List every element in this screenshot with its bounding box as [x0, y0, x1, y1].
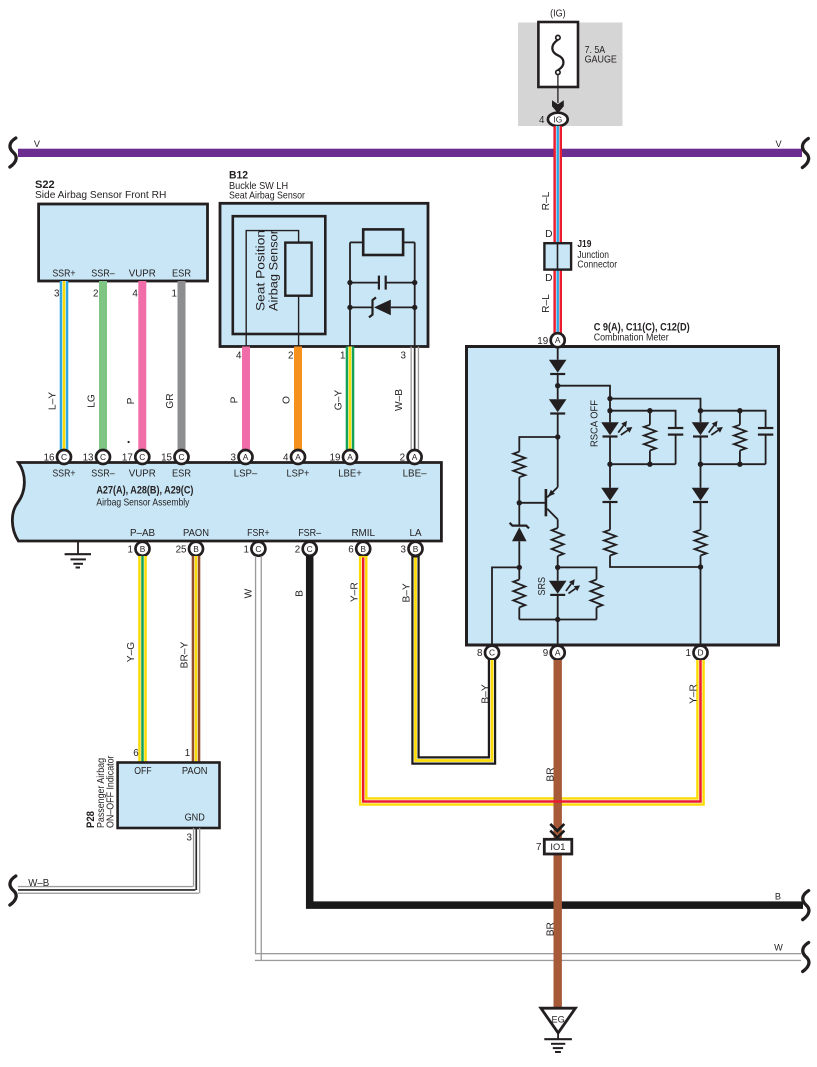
- svg-text:Y–R: Y–R: [349, 582, 360, 602]
- svg-text:B: B: [193, 544, 199, 554]
- svg-text:Combination Meter: Combination Meter: [594, 332, 670, 343]
- svg-text:B: B: [413, 544, 419, 554]
- svg-text:LSP+: LSP+: [287, 468, 310, 479]
- svg-text:Y–R: Y–R: [689, 684, 700, 704]
- wire LG (S22 pin2 to 13C): [99, 281, 107, 450]
- svg-text:ESR: ESR: [172, 268, 191, 279]
- node: [555, 617, 560, 622]
- terminal 1(B) P-AB: [128, 542, 150, 556]
- wire B (2C FSR- to right edge): [310, 556, 803, 905]
- svg-text:J19: J19: [577, 239, 591, 250]
- component combination meter box: [467, 347, 779, 646]
- terminal 3(B) LA: [401, 542, 423, 556]
- wire W-B (B12 pin3 to 2A): [411, 347, 420, 451]
- wire to terminal 9A: [557, 595, 559, 645]
- terminal 17(C) VUPR: [122, 450, 149, 464]
- resistor R4: [591, 580, 603, 608]
- svg-text:C: C: [100, 452, 106, 462]
- svg-text:SSR+: SSR+: [53, 468, 76, 479]
- svg-text:D: D: [545, 273, 552, 284]
- svg-text:3: 3: [187, 832, 193, 843]
- resistor group2: [739, 411, 741, 425]
- capacitor in B12: [350, 276, 415, 290]
- svg-text:BR: BR: [545, 767, 556, 781]
- svg-text:C: C: [307, 544, 313, 554]
- label B12 Buckle SW LH Seat Airbag Sensor: [229, 170, 306, 202]
- node dots on B12 rails: [347, 280, 417, 310]
- component P28 Passenger Airbag ON-OFF Indicator: [118, 763, 220, 829]
- svg-text:D: D: [697, 648, 703, 658]
- wire: [700, 502, 702, 530]
- svg-text:L–Y: L–Y: [48, 392, 59, 410]
- squiggle B right: [803, 891, 809, 920]
- node: [517, 565, 522, 570]
- wire group2 to terminal 1D: [700, 556, 702, 646]
- wire feed to RSCA section: [558, 386, 610, 399]
- wire group1 bottom to group2: [610, 556, 701, 568]
- svg-text:LSP–: LSP–: [234, 468, 258, 479]
- capacitor group2: [758, 428, 773, 464]
- group1 top rail: [610, 411, 676, 428]
- svg-text:19: 19: [330, 453, 341, 464]
- svg-text:C: C: [139, 452, 145, 462]
- group2 top rail: [701, 411, 766, 428]
- zener diode in B12: [350, 297, 415, 317]
- svg-text:GR: GR: [165, 393, 176, 408]
- seat position airbag sensor housing: [233, 216, 325, 334]
- svg-text:A: A: [243, 452, 249, 462]
- svg-text:B12: B12: [229, 170, 248, 182]
- node: [607, 396, 612, 401]
- svg-text:Y–G: Y–G: [126, 642, 137, 662]
- svg-text:ESR: ESR: [172, 468, 191, 479]
- svg-text:3: 3: [401, 351, 407, 362]
- terminal 15(C) ESR: [161, 450, 188, 464]
- svg-text:LG: LG: [87, 394, 98, 408]
- ground from assembly band: [65, 541, 91, 568]
- svg-text:C: C: [255, 544, 261, 554]
- svg-text:3: 3: [54, 288, 60, 299]
- svg-text:7: 7: [536, 842, 541, 853]
- capacitor group1: [668, 428, 683, 464]
- zener diode Z1: [510, 523, 529, 542]
- svg-text:3: 3: [231, 453, 237, 464]
- svg-text:LA: LA: [410, 528, 422, 539]
- terminal 16(C) SSR+: [44, 450, 71, 464]
- SRS bottom rail: [519, 619, 596, 621]
- label C9A C11C C12D Combination Meter: [594, 322, 690, 344]
- wire L-Y (S22 pin3 to 16C): [60, 281, 69, 450]
- svg-text:EG: EG: [551, 1014, 564, 1024]
- terminal labels top of band: [53, 468, 427, 479]
- wire feed to group2: [610, 399, 701, 423]
- squiggle W right: [803, 943, 809, 972]
- stray dot: [128, 441, 130, 443]
- terminal 2(C) FSR-: [295, 542, 317, 556]
- svg-text:6: 6: [133, 748, 139, 759]
- fuse block gray background: [518, 23, 623, 127]
- svg-text:SSR–: SSR–: [91, 468, 115, 479]
- terminal 1(D) combination meter: [686, 646, 708, 660]
- svg-text:LBE–: LBE–: [403, 468, 427, 479]
- component S22 Side Airbag Sensor Front RH: [39, 204, 208, 281]
- wire: [609, 399, 611, 423]
- svg-text:C: C: [489, 648, 495, 658]
- svg-text:4: 4: [236, 351, 242, 362]
- diode D1: [549, 360, 567, 374]
- svg-text:4: 4: [539, 115, 545, 126]
- wire: [518, 607, 520, 619]
- svg-text:Airbag Sensor Assembly: Airbag Sensor Assembly: [96, 497, 190, 508]
- svg-text:4: 4: [283, 453, 289, 464]
- svg-text:GAUGE: GAUGE: [585, 55, 617, 66]
- svg-text:RMIL: RMIL: [351, 528, 375, 539]
- svg-text:BR–Y: BR–Y: [180, 641, 191, 668]
- svg-text:15: 15: [161, 453, 172, 464]
- svg-text:2: 2: [400, 453, 405, 464]
- buckle switch left rail: [349, 242, 351, 346]
- power bus V (purple): [18, 149, 802, 157]
- svg-text:1: 1: [128, 544, 133, 555]
- wire: [557, 556, 559, 581]
- resistor lower group1: [604, 530, 616, 556]
- label A27 A28 A29 Airbag Sensor Assembly: [96, 485, 193, 509]
- resistor R3: [513, 580, 525, 608]
- svg-text:Airbag Sensor: Airbag Sensor: [267, 230, 281, 311]
- diode group2: [692, 488, 710, 502]
- svg-text:G–Y: G–Y: [334, 390, 345, 411]
- svg-text:SRS: SRS: [537, 577, 548, 596]
- bus continuation squiggle right: [802, 139, 808, 168]
- node: [555, 434, 560, 439]
- svg-text:LBE+: LBE+: [338, 468, 362, 479]
- svg-text:SSR–: SSR–: [91, 268, 115, 279]
- wire GR (S22 pin1 to 15C): [178, 281, 186, 450]
- wire: [609, 502, 611, 530]
- red stripe of Y-R over BR: [363, 558, 700, 802]
- node base junction: [517, 500, 522, 505]
- transistor Q1: [545, 487, 558, 519]
- svg-text:17: 17: [122, 453, 133, 464]
- svg-text:PAON: PAON: [183, 528, 209, 539]
- wire: [557, 414, 559, 488]
- label P28 vertical: [85, 755, 116, 828]
- svg-text:3: 3: [401, 544, 407, 555]
- terminal 13(C) SSR-: [83, 450, 110, 464]
- wire BR-Y (25B to P28 PAON): [192, 556, 201, 762]
- svg-text:8: 8: [477, 648, 483, 659]
- wire P (B12 pin4 to 3A): [242, 347, 250, 451]
- wire SRS right rail: [558, 567, 597, 579]
- svg-text:A27(A), A28(B), A29(C): A27(A), A28(B), A29(C): [96, 485, 193, 497]
- terminal labels bottom of band: [130, 528, 422, 539]
- svg-text:16: 16: [44, 453, 55, 464]
- svg-text:B: B: [140, 544, 146, 554]
- label J19 Junction Connector: [577, 239, 617, 271]
- svg-text:B: B: [360, 544, 366, 554]
- svg-text:1: 1: [243, 544, 248, 555]
- svg-text:VUPR: VUPR: [129, 268, 156, 279]
- wire W-B (P28 GND to left edge): [18, 828, 200, 894]
- svg-text:2: 2: [295, 544, 300, 555]
- group2 bottom rail: [701, 463, 766, 465]
- svg-text:GND: GND: [185, 813, 205, 824]
- group1 bottom rail: [610, 463, 676, 465]
- svg-text:19: 19: [537, 336, 548, 347]
- buckle switch element box: [350, 229, 415, 255]
- svg-text:Seat Airbag Sensor: Seat Airbag Sensor: [229, 190, 306, 201]
- buckle switch right rail: [414, 242, 416, 346]
- svg-text:4: 4: [132, 288, 138, 299]
- wire Y-R yellow base (6B RMIL to 1D): [363, 556, 700, 802]
- svg-text:IG: IG: [553, 114, 562, 124]
- ground EG: [541, 1008, 576, 1052]
- svg-text:2: 2: [93, 288, 98, 299]
- wire BR (9A to EG ground): [554, 660, 562, 1008]
- wire: [596, 607, 598, 619]
- wire: [557, 374, 559, 399]
- terminal 6(B) RMIL: [348, 542, 370, 556]
- LED RSCA group1: [601, 422, 619, 436]
- svg-text:6: 6: [348, 544, 354, 555]
- terminal 25(B) PAON: [176, 542, 203, 556]
- svg-text:2: 2: [288, 351, 293, 362]
- svg-text:ON–OFF Indicator: ON–OFF Indicator: [105, 755, 116, 828]
- wire main feed inside meter: [557, 348, 559, 360]
- label S22 Side Airbag Sensor Front RH: [35, 179, 166, 201]
- resistor R2: [552, 528, 564, 556]
- svg-text:OFF: OFF: [134, 766, 151, 777]
- wire inside B12 from pin4: [246, 231, 298, 346]
- svg-text:D: D: [545, 229, 552, 240]
- svg-text:P: P: [230, 396, 241, 403]
- svg-text:W: W: [774, 943, 783, 953]
- svg-text:9: 9: [543, 648, 548, 659]
- diode D2: [549, 399, 567, 413]
- terminal 1(C) FSR+: [243, 542, 265, 556]
- svg-text:13: 13: [83, 453, 94, 464]
- svg-text:FSR–: FSR–: [298, 528, 321, 539]
- svg-text:1: 1: [172, 288, 177, 299]
- component B12 box: [220, 203, 428, 346]
- resistor group1: [649, 411, 651, 425]
- node: [555, 565, 560, 570]
- wire to terminal 8C: [492, 567, 519, 645]
- svg-text:B–Y: B–Y: [480, 684, 491, 703]
- LED SRS indicator: [549, 581, 567, 595]
- wire branch to R1: [519, 437, 557, 452]
- wire O (B12 pin2 to 4A): [294, 347, 302, 451]
- svg-text:A: A: [555, 648, 561, 658]
- svg-text:W–B: W–B: [28, 878, 49, 889]
- fuse 7.5A GAUGE: [538, 9, 617, 87]
- diode group1: [601, 488, 619, 502]
- svg-text:R–L: R–L: [541, 191, 552, 210]
- resistor lower group2: [695, 530, 707, 556]
- junction connector J19: [544, 243, 571, 269]
- wire from sensor element to pin2: [298, 296, 300, 346]
- svg-text:1: 1: [340, 351, 345, 362]
- connector terminal 4 IG: [539, 113, 568, 126]
- resistor R1: [513, 452, 525, 478]
- label Seat Position Airbag Sensor: [254, 230, 281, 311]
- svg-text:C: C: [61, 452, 67, 462]
- terminal 9(A) combination meter: [543, 646, 565, 660]
- svg-text:VUPR: VUPR: [129, 468, 156, 479]
- wire R-L (IG to combination meter pin 19): [553, 126, 562, 334]
- wire base of transistor: [519, 502, 545, 504]
- connector IO1: [536, 839, 572, 854]
- node: [555, 383, 560, 388]
- svg-text:B: B: [775, 892, 781, 902]
- terminal 19(A) combination meter: [537, 333, 564, 347]
- svg-text:A: A: [412, 452, 418, 462]
- svg-text:RSCA OFF: RSCA OFF: [590, 400, 601, 447]
- svg-text:1: 1: [686, 648, 691, 659]
- connector chevrons above IO1: [550, 824, 564, 838]
- svg-text:FSR+: FSR+: [247, 528, 270, 539]
- svg-text:P: P: [126, 397, 137, 404]
- terminal 4(A) LSP+: [283, 450, 305, 464]
- svg-text:PAON: PAON: [182, 766, 208, 777]
- terminal 3(A) LSP-: [231, 450, 253, 464]
- svg-text:B–Y: B–Y: [401, 583, 412, 602]
- wire: [609, 437, 611, 488]
- svg-text:A: A: [347, 452, 353, 462]
- wire G-Y (B12 pin1 to 19A): [346, 347, 355, 451]
- svg-text:V: V: [776, 139, 783, 149]
- terminal 2(A) LBE-: [400, 450, 422, 464]
- node: [607, 408, 612, 413]
- wire B-Y (3B LA to 8C): [416, 556, 493, 761]
- squiggle W-B left: [10, 876, 16, 905]
- bus continuation squiggle left: [10, 138, 16, 167]
- node: [698, 408, 703, 413]
- LED RSCA group2: [692, 422, 710, 436]
- arrow from fuse to connector IG: [552, 75, 564, 113]
- svg-text:R–L: R–L: [541, 294, 552, 313]
- svg-text:Side Airbag Sensor Front RH: Side Airbag Sensor Front RH: [35, 190, 166, 201]
- svg-text:SSR+: SSR+: [53, 268, 76, 279]
- wire P (S22 pin4 to 17C): [138, 281, 146, 450]
- svg-text:A: A: [295, 452, 301, 462]
- svg-text:P–AB: P–AB: [130, 528, 155, 539]
- svg-text:A: A: [555, 335, 561, 345]
- svg-text:IO1: IO1: [550, 842, 565, 852]
- terminal 19(A) LBE+: [330, 450, 357, 464]
- svg-text:V: V: [34, 139, 41, 149]
- terminal 8(C) combination meter: [477, 646, 499, 660]
- wire: [700, 437, 702, 488]
- wire Y-G (1B to P28 OFF): [138, 556, 147, 762]
- svg-text:(IG): (IG): [550, 9, 566, 20]
- svg-text:Seat Position: Seat Position: [254, 230, 268, 311]
- sensor element: [285, 243, 311, 296]
- wire: [518, 477, 520, 525]
- svg-text:W: W: [244, 588, 255, 598]
- svg-text:B: B: [295, 590, 306, 597]
- svg-text:1: 1: [185, 748, 190, 759]
- svg-text:C: C: [178, 452, 184, 462]
- svg-text:W–B: W–B: [394, 389, 405, 411]
- svg-text:25: 25: [176, 544, 187, 555]
- svg-text:BR: BR: [545, 922, 556, 936]
- wire emitter down: [557, 519, 559, 528]
- svg-text:Connector: Connector: [577, 260, 617, 271]
- node: [698, 564, 703, 569]
- wire W (1C FSR+ to right edge): [255, 556, 801, 961]
- component airbag sensor assembly band: [12, 463, 441, 542]
- svg-text:O: O: [282, 396, 293, 404]
- wire: [518, 541, 520, 579]
